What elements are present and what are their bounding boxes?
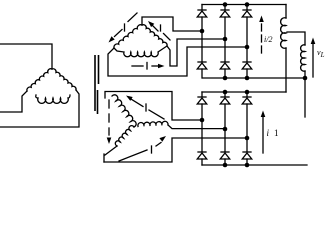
diode D9 [242, 92, 252, 138]
delta secondary right side coil [142, 25, 167, 46]
current label tick 1 (apex arrow) [160, 25, 162, 31]
delta secondary left side coil [114, 25, 142, 48]
primary winding left side coil [27, 69, 52, 91]
interphase reactor coil [281, 18, 286, 49]
node c2 junction dot [245, 136, 250, 141]
diode D12 [242, 138, 252, 165]
current label tick I (upper wye arrow) [145, 104, 147, 111]
wire reactor to bottom bridge positive bus [285, 48, 287, 92]
diode D10 [197, 120, 207, 165]
delta secondary bottom coil [114, 46, 167, 57]
dashed current arrow below delta bottom coil [132, 65, 160, 67]
arrow current i1 bottom bridge output [262, 117, 264, 153]
junction dots bottom bridge positive bus [223, 90, 228, 95]
junction dots on top bus [223, 2, 228, 7]
junction dots bottom negative bus [223, 163, 228, 168]
wire top bus to reactor [285, 5, 287, 19]
diode D2 [220, 5, 230, 40]
wire phase-a input to primary apex [0, 44, 52, 69]
wire load bottom to negative rail [304, 71, 306, 78]
diode D11 [220, 129, 230, 165]
current label tick I (bottom arrow) [146, 63, 148, 70]
svg-text:i/2: i/2 [264, 35, 272, 44]
wire delta right vertex to node b1 [167, 39, 223, 66]
primary winding right side coil [52, 69, 76, 90]
bottom bridge positive bus [202, 91, 286, 93]
diode D5 [220, 39, 230, 78]
wye lower-left branch coil [115, 126, 134, 146]
wye upper-left branch coil [112, 95, 136, 127]
primary winding bottom coil [36, 95, 70, 103]
svg-text:i: i [267, 128, 270, 138]
reactor center tap wire to load [287, 32, 305, 45]
arrow load voltage vL [312, 44, 314, 77]
top bridge negative bus [203, 77, 305, 79]
core lines lower transformer [97, 90, 99, 114]
junction dots on negative bus [223, 76, 228, 81]
wire delta left vertex to node c1 [108, 47, 245, 76]
dashed arrow current i/2 top bridge output [261, 24, 263, 53]
current label tick I (left arrow) [124, 24, 126, 31]
node c1 junction dot [245, 45, 250, 50]
diode D1 [197, 5, 207, 32]
dashed current arrow lower diagonal (wye) [119, 143, 161, 162]
diode D8 [220, 92, 230, 129]
wye right branch coil to node b2 [138, 121, 223, 128]
wye bottom wire to node c2 [104, 138, 245, 162]
diode D7 [197, 92, 207, 120]
wire load return stub [304, 78, 306, 117]
current label tick I (lower wye arrow) [151, 146, 153, 153]
node b2 junction dot [223, 127, 228, 132]
wire wye lower tip to bottom rail [104, 146, 117, 162]
core lines upper transformer [95, 55, 99, 111]
bottom bridge negative bus [202, 164, 307, 166]
svg-text:vL: vL [317, 48, 325, 59]
dashed current arrow right of delta apex [152, 25, 170, 40]
svg-text:1: 1 [274, 128, 279, 138]
delta secondary apex plateau wire to node a1 [142, 17, 200, 31]
top bridge positive bus [202, 4, 286, 6]
junction dot load bottom [303, 76, 308, 81]
node a1 junction dot [200, 29, 205, 34]
load inductor coil [301, 45, 305, 71]
diode D4 [197, 31, 207, 78]
dashed current arrow vertical left (wye) [108, 100, 110, 135]
dashed current arrow left of delta [115, 13, 138, 37]
node a2 junction dot [200, 118, 205, 123]
wire phase-b input to primary left vertex [0, 91, 27, 112]
diode D3 [242, 5, 252, 48]
dashed current arrow upper diagonal (wye) [131, 99, 164, 119]
wye top wire to node a2 [105, 92, 200, 121]
diode D6 [242, 47, 252, 78]
wire phase-c input to primary right vertex [0, 90, 79, 127]
node b1 junction dot [223, 37, 228, 42]
